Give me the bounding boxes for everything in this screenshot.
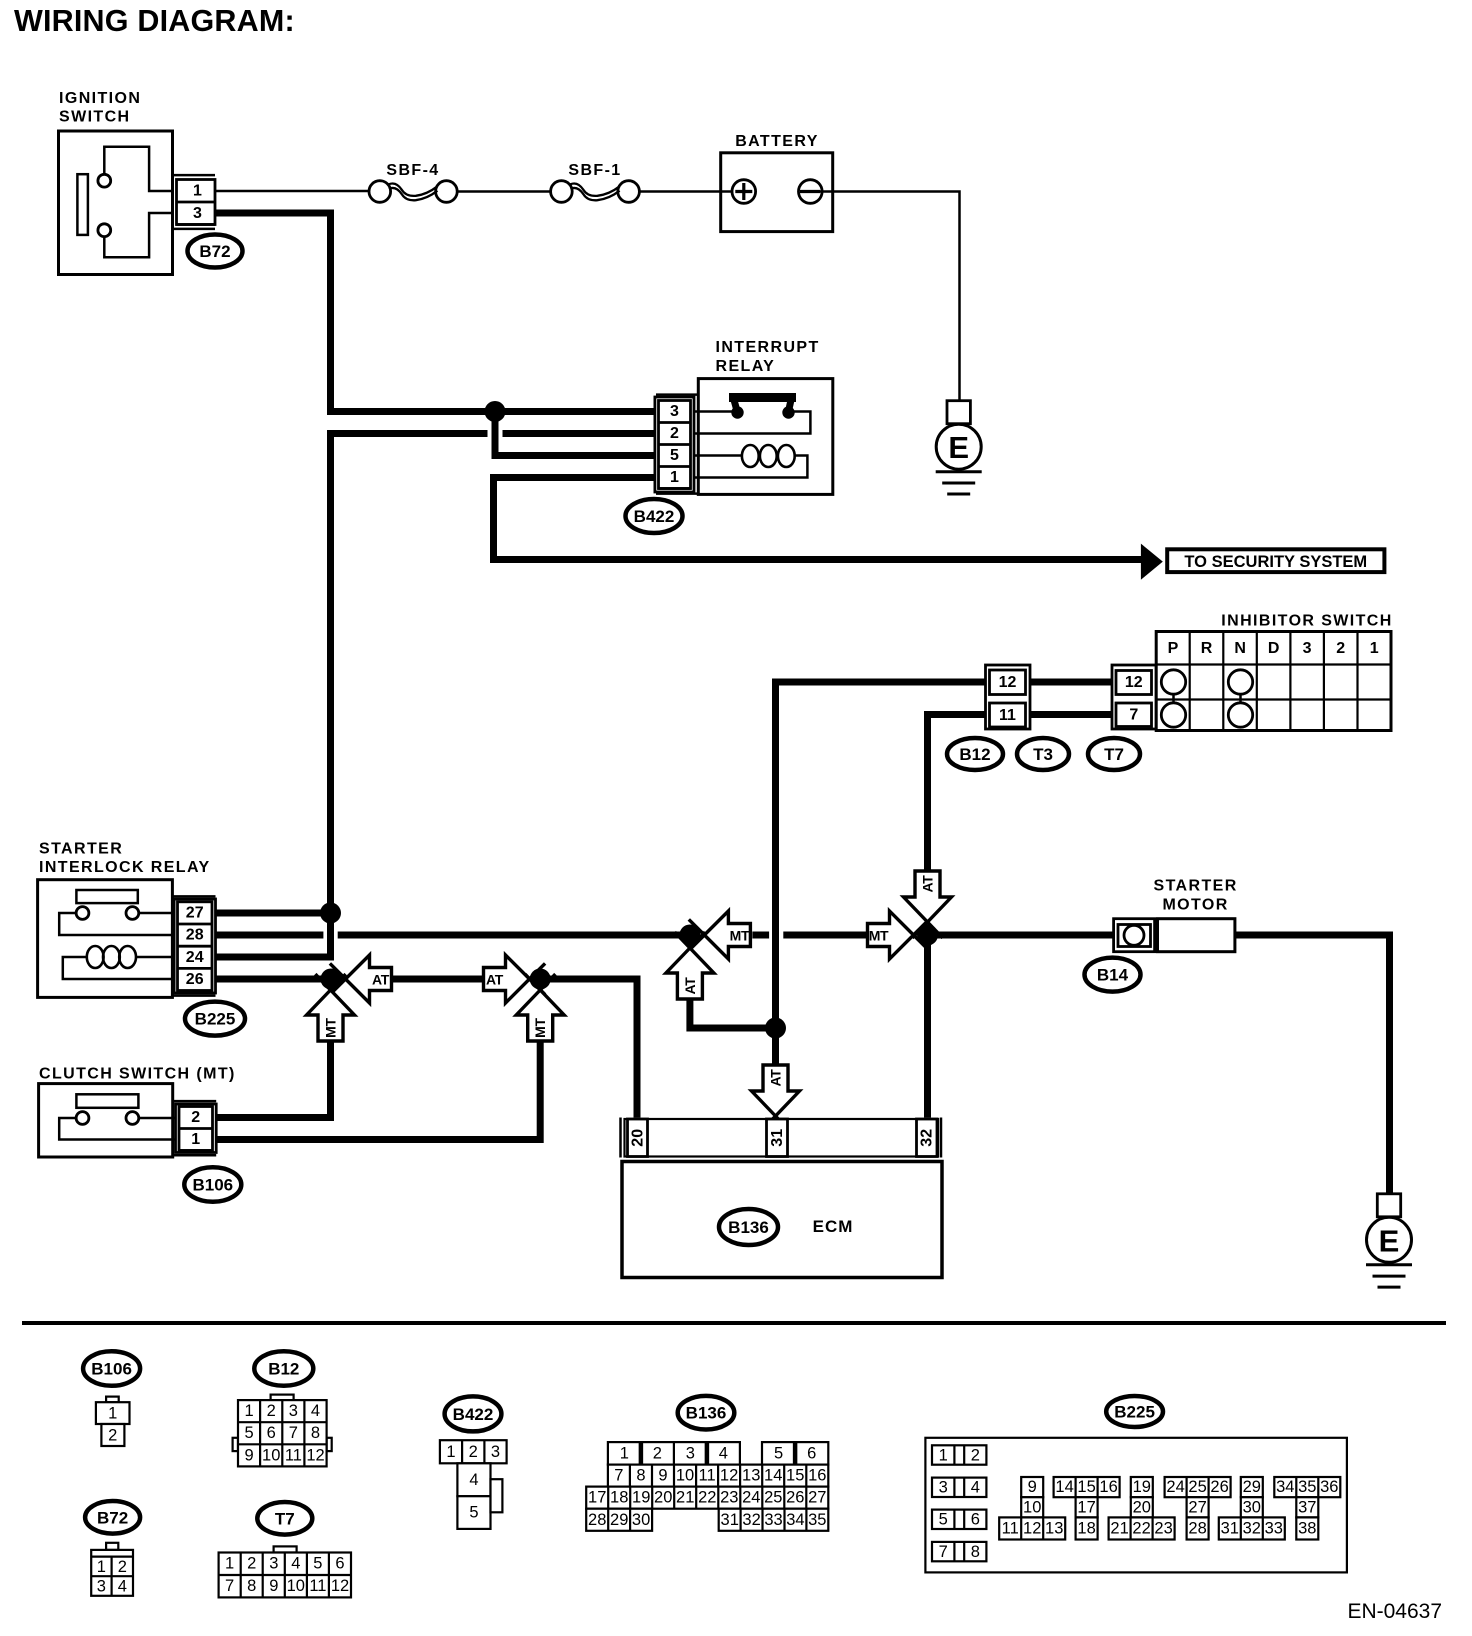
svg-text:14: 14 (1055, 1478, 1073, 1496)
svg-text:21: 21 (676, 1489, 694, 1507)
svg-text:32: 32 (1243, 1520, 1261, 1538)
ECM pin 20 (628, 1119, 648, 1157)
svg-text:34: 34 (786, 1511, 804, 1529)
svg-text:9: 9 (658, 1467, 667, 1485)
wire ECM31 net down to AT arrow (772, 1028, 779, 1065)
svg-text:EN-04637: EN-04637 (1347, 1600, 1442, 1623)
svg-text:AT: AT (768, 1069, 784, 1087)
pinout B225 left pin pairs (932, 1445, 986, 1561)
svg-text:INTERRUPT: INTERRUPT (716, 339, 820, 356)
pinout B422 pins 4,5 (457, 1463, 502, 1529)
pinout label B72 (85, 1501, 140, 1534)
separator line (22, 1321, 1446, 1325)
svg-text:N: N (1234, 640, 1246, 657)
svg-text:7: 7 (614, 1467, 623, 1485)
wire clutch pin2 up to MT arrow (216, 1041, 330, 1118)
svg-text:29: 29 (610, 1511, 628, 1529)
connector B422 bracket (656, 393, 698, 396)
svg-text:1: 1 (97, 1558, 106, 1576)
svg-text:CLUTCH SWITCH (MT): CLUTCH SWITCH (MT) (39, 1066, 236, 1083)
svg-text:11: 11 (285, 1446, 302, 1464)
svg-text:B422: B422 (453, 1405, 494, 1424)
svg-text:INTERLOCK RELAY: INTERLOCK RELAY (39, 859, 211, 876)
svg-text:8: 8 (636, 1467, 645, 1485)
interrupt relay coil (694, 445, 807, 478)
svg-text:STARTER: STARTER (39, 841, 123, 858)
svg-text:13: 13 (742, 1467, 760, 1485)
junction node B2 (917, 925, 938, 946)
svg-text:24: 24 (186, 949, 204, 966)
ground E (starter motor) (1366, 1194, 1412, 1287)
svg-text:20: 20 (1133, 1498, 1151, 1516)
svg-text:4: 4 (469, 1471, 478, 1489)
svg-text:9: 9 (1028, 1478, 1037, 1496)
connector label B106 (184, 1167, 241, 1202)
svg-text:WIRING DIAGRAM:: WIRING DIAGRAM: (14, 4, 295, 38)
battery box (721, 153, 833, 232)
svg-text:4: 4 (971, 1479, 980, 1497)
svg-text:11: 11 (1002, 1520, 1019, 1538)
pinout B422 top row (440, 1440, 507, 1463)
wire clutch pin1 up to MT arrow (216, 1041, 540, 1140)
svg-text:33: 33 (1265, 1520, 1283, 1538)
svg-text:36: 36 (1320, 1478, 1338, 1496)
svg-text:26: 26 (186, 971, 204, 988)
svg-text:B14: B14 (1097, 966, 1129, 985)
svg-text:3: 3 (193, 205, 202, 222)
svg-text:30: 30 (1243, 1498, 1261, 1516)
svg-text:1: 1 (620, 1444, 629, 1462)
svg-text:5: 5 (670, 447, 679, 464)
pinout B225 group 14-18 (1054, 1477, 1120, 1540)
svg-text:T7: T7 (1104, 745, 1124, 764)
svg-text:B422: B422 (634, 507, 675, 526)
svg-text:3: 3 (491, 1443, 500, 1461)
svg-text:B106: B106 (192, 1176, 233, 1195)
pinout B72 connector (91, 1550, 133, 1596)
inhibitor switch table (1156, 632, 1391, 731)
svg-text:10: 10 (676, 1467, 694, 1485)
svg-text:E: E (1379, 1223, 1400, 1258)
wire battery to ground E (thin) (820, 192, 960, 401)
svg-text:2: 2 (267, 1402, 276, 1420)
svg-text:B72: B72 (199, 242, 230, 261)
svg-text:17: 17 (588, 1489, 606, 1507)
wire interrupt relay pin2 down to starter interlock (with crossing gap) (216, 434, 655, 958)
svg-text:1: 1 (191, 1131, 200, 1148)
starter interlock relay coil (63, 946, 174, 979)
battery - terminal (799, 180, 823, 204)
svg-text:3: 3 (939, 1479, 948, 1497)
svg-text:AT: AT (682, 977, 698, 995)
pinout B225 outer box (925, 1438, 1347, 1573)
wire between inhibitor connectors row2 (1030, 711, 1112, 718)
svg-text:30: 30 (632, 1511, 650, 1529)
alternate-path arrow MT (up, node A2) (516, 974, 564, 1041)
svg-text:3: 3 (289, 1402, 298, 1420)
svg-text:11: 11 (999, 707, 1016, 724)
svg-text:11: 11 (699, 1467, 716, 1485)
pinout B225 group 34-38 (1274, 1477, 1340, 1540)
pinout B225 group 9-13 (999, 1477, 1065, 1540)
svg-text:B225: B225 (1114, 1403, 1155, 1422)
svg-text:19: 19 (632, 1489, 650, 1507)
ECM connector strip brackets (619, 1118, 622, 1158)
svg-text:STARTER: STARTER (1154, 878, 1238, 895)
svg-text:4: 4 (719, 1444, 728, 1462)
interrupt relay box (698, 379, 833, 495)
svg-text:12: 12 (306, 1446, 324, 1464)
svg-text:23: 23 (720, 1489, 738, 1507)
inhibitor connector T7 (12,7) (1112, 665, 1156, 729)
pinout label B225 (1106, 1396, 1163, 1427)
svg-text:24: 24 (742, 1489, 760, 1507)
svg-text:6: 6 (335, 1555, 344, 1573)
svg-text:35: 35 (808, 1511, 826, 1529)
wire node B2 down to ECM pin32 (924, 943, 931, 1118)
clutch switch contact circles (76, 1112, 89, 1125)
svg-text:SBF-4: SBF-4 (386, 162, 439, 179)
svg-text:3: 3 (1303, 640, 1312, 657)
svg-text:8: 8 (247, 1577, 256, 1595)
svg-text:3: 3 (97, 1578, 106, 1596)
svg-text:17: 17 (1077, 1498, 1095, 1516)
ECM connector strip (625, 1119, 939, 1157)
svg-text:MT: MT (730, 928, 750, 944)
svg-text:2: 2 (653, 1444, 662, 1462)
wire between AT arrows run A (392, 976, 484, 983)
svg-text:SWITCH: SWITCH (59, 109, 131, 126)
svg-text:T3: T3 (1033, 745, 1053, 764)
svg-text:3: 3 (670, 403, 679, 420)
connector B225 bracket (172, 895, 215, 898)
svg-text:9: 9 (269, 1577, 278, 1595)
pinout B106 connector (96, 1397, 130, 1446)
svg-text:1: 1 (939, 1446, 948, 1464)
svg-text:SBF-1: SBF-1 (568, 162, 621, 179)
wire node A2 to ECM pin20 (540, 979, 637, 1118)
svg-text:7: 7 (289, 1424, 298, 1442)
ignition switch key bar (77, 174, 88, 235)
wire interrupt relay pin1 to security system (494, 478, 1146, 560)
pinout label T7 (257, 1502, 312, 1535)
svg-text:22: 22 (698, 1489, 716, 1507)
svg-text:1: 1 (193, 182, 202, 199)
pinout B225 group 29-33 (1219, 1477, 1285, 1540)
svg-text:26: 26 (1210, 1478, 1228, 1496)
svg-text:5: 5 (313, 1555, 322, 1573)
connector label T3 (1017, 738, 1069, 770)
clutch switch contact wiring (59, 1118, 175, 1140)
connector B72 bracket (172, 174, 215, 177)
pinout B136 row4 cells 28-30 (586, 1509, 652, 1531)
svg-text:1: 1 (446, 1443, 455, 1461)
clutch switch contact bar (76, 1094, 138, 1108)
starter interlock relay box (38, 880, 173, 998)
svg-text:MOTOR: MOTOR (1162, 897, 1228, 914)
svg-text:35: 35 (1298, 1478, 1316, 1496)
svg-text:2: 2 (1336, 640, 1345, 657)
pinout T7 grid (219, 1553, 351, 1598)
pinout label B12 (254, 1351, 313, 1386)
pinout label B136 (678, 1396, 735, 1430)
svg-text:10: 10 (262, 1446, 280, 1464)
connector label B14 (1085, 958, 1141, 992)
alternate-path arrow AT (left, node A1) (330, 955, 392, 1003)
svg-text:12: 12 (331, 1577, 349, 1595)
svg-text:1: 1 (225, 1555, 234, 1573)
pinout B136 row2 (608, 1465, 828, 1487)
junction node A1 (321, 969, 342, 990)
wire starter relay pin28 long run (gaps at crossings) (216, 932, 1114, 939)
svg-text:34: 34 (1276, 1478, 1294, 1496)
svg-text:13: 13 (1045, 1520, 1063, 1538)
svg-text:7: 7 (225, 1577, 234, 1595)
svg-text:IGNITION: IGNITION (59, 90, 141, 107)
alternate-path arrow MT (right, node B2) (868, 911, 930, 959)
alternate-path arrow AT (right, node A2) (484, 955, 546, 1003)
alternate-path arrow AT (down, node B2) (904, 871, 952, 938)
svg-text:1: 1 (245, 1402, 254, 1420)
svg-text:24: 24 (1166, 1478, 1184, 1496)
svg-text:BATTERY: BATTERY (735, 133, 819, 150)
pinout B72 top tab (106, 1543, 118, 1550)
svg-text:3: 3 (269, 1555, 278, 1573)
wire starter relay pin26 to node A1 (216, 976, 332, 983)
ignition switch internal wiring (104, 147, 172, 258)
svg-text:5: 5 (245, 1424, 254, 1442)
connector B422 pins 3,2,5,1 (655, 397, 694, 492)
pinout label B106 (83, 1351, 140, 1386)
junction node on ECM31 net (765, 1018, 786, 1039)
interrupt relay contact (694, 393, 810, 434)
svg-text:RELAY: RELAY (716, 358, 776, 375)
pinout B136 row1 cells 1-4 (608, 1442, 740, 1465)
svg-text:12: 12 (999, 674, 1017, 691)
ignition switch box (59, 131, 173, 275)
svg-text:21: 21 (1110, 1520, 1128, 1538)
svg-text:20: 20 (654, 1489, 672, 1507)
connector label B72 (188, 235, 243, 268)
connector B72 pins 1,3 (177, 180, 216, 225)
svg-text:12: 12 (1023, 1520, 1041, 1538)
svg-text:12: 12 (720, 1467, 738, 1485)
svg-text:23: 23 (1154, 1520, 1172, 1538)
svg-text:5: 5 (939, 1511, 948, 1529)
svg-text:MT: MT (532, 1017, 548, 1037)
wire between inhibitor connectors row1 (1030, 679, 1112, 686)
pinout B12 top tab (271, 1395, 294, 1401)
svg-text:28: 28 (1188, 1520, 1206, 1538)
svg-text:12: 12 (1125, 674, 1143, 691)
pinout label B422 (445, 1396, 502, 1431)
svg-text:19: 19 (1133, 1478, 1151, 1496)
connector label T7 (1088, 738, 1140, 770)
inhibitor switch contact circles P (1161, 670, 1185, 694)
pinout B12 grid (238, 1400, 327, 1466)
svg-text:31: 31 (769, 1129, 786, 1147)
svg-text:B72: B72 (97, 1508, 128, 1527)
svg-text:R: R (1201, 640, 1213, 657)
alternate-path arrow AT (down, ECM pin31) (752, 1065, 800, 1132)
inhibitor switch contact circles N (1228, 670, 1252, 694)
svg-text:TO SECURITY SYSTEM: TO SECURITY SYSTEM (1184, 553, 1367, 571)
svg-text:6: 6 (267, 1424, 276, 1442)
connector B225 pins 27,28,24,26 (174, 899, 215, 993)
svg-text:33: 33 (764, 1511, 782, 1529)
svg-text:B12: B12 (268, 1360, 299, 1379)
svg-text:1: 1 (1370, 640, 1379, 657)
svg-text:INHIBITOR SWITCH: INHIBITOR SWITCH (1221, 613, 1392, 630)
wire starter relay pin27 to vertical (216, 910, 331, 917)
svg-text:27: 27 (808, 1489, 826, 1507)
svg-text:2: 2 (247, 1555, 256, 1573)
svg-text:10: 10 (1023, 1498, 1041, 1516)
svg-text:32: 32 (742, 1511, 760, 1529)
arrow to security system (1141, 544, 1163, 580)
pinout B136 row3 (586, 1487, 828, 1509)
connector label B12 (947, 738, 1003, 770)
svg-text:2: 2 (191, 1109, 200, 1126)
svg-text:1: 1 (108, 1405, 117, 1423)
svg-text:4: 4 (291, 1555, 300, 1573)
svg-text:MT: MT (869, 928, 889, 944)
alternate-path arrow AT (up, node B1) (666, 932, 714, 999)
svg-text:8: 8 (311, 1424, 320, 1442)
svg-text:AT: AT (372, 972, 390, 988)
svg-text:B225: B225 (195, 1010, 236, 1029)
svg-text:27: 27 (1188, 1498, 1206, 1516)
pinout B136 row4 cells 31-35 (719, 1509, 829, 1531)
svg-text:2: 2 (469, 1443, 478, 1461)
wire ignition pin3 down to interrupt relay pin3 (215, 213, 655, 412)
svg-text:11: 11 (309, 1577, 326, 1595)
svg-text:MT: MT (323, 1017, 339, 1037)
connector B14 (1114, 919, 1155, 952)
svg-text:1: 1 (670, 469, 679, 486)
pinout B225 group 24-28 (1165, 1477, 1231, 1540)
starter interlock relay contact bar (76, 890, 137, 903)
svg-text:2: 2 (108, 1426, 117, 1444)
svg-text:AT: AT (920, 875, 936, 893)
junction node (relay pin3 branch) (485, 401, 506, 422)
wire branch to interrupt relay pin5 (495, 412, 655, 456)
svg-text:B106: B106 (91, 1360, 132, 1379)
svg-text:25: 25 (764, 1489, 782, 1507)
svg-text:4: 4 (118, 1578, 127, 1596)
svg-text:D: D (1268, 640, 1280, 657)
ignition switch contact circles (98, 174, 111, 187)
TO SECURITY SYSTEM box (1167, 549, 1384, 572)
svg-text:14: 14 (764, 1467, 782, 1485)
svg-text:P: P (1168, 640, 1179, 657)
clutch switch box (39, 1084, 173, 1157)
connector B106 bracket (173, 1100, 217, 1103)
svg-text:31: 31 (1221, 1520, 1239, 1538)
junction node A2 (530, 969, 551, 990)
svg-text:22: 22 (1132, 1520, 1150, 1538)
svg-text:5: 5 (774, 1444, 783, 1462)
ECM pin 31 (767, 1119, 788, 1157)
starter interlock relay contact wiring (59, 913, 174, 935)
alternate-path arrow MT (left, node B1) (689, 911, 751, 959)
svg-text:B136: B136 (728, 1218, 769, 1237)
wire ignition pin1 to battery (thin) (215, 190, 732, 193)
wire ECM31 net to inhibitor pin 12 (776, 682, 986, 1028)
ground E (battery) (936, 401, 982, 494)
svg-text:ECM: ECM (813, 1217, 854, 1236)
svg-text:29: 29 (1243, 1478, 1261, 1496)
svg-text:16: 16 (808, 1467, 826, 1485)
wire node B1 AT branch down to node ECM31 net (690, 997, 776, 1028)
svg-text:27: 27 (186, 904, 204, 921)
svg-text:9: 9 (245, 1446, 254, 1464)
svg-text:31: 31 (721, 1511, 739, 1529)
svg-text:15: 15 (1077, 1478, 1095, 1496)
ECM box (622, 1162, 942, 1278)
svg-text:10: 10 (287, 1577, 305, 1595)
svg-text:20: 20 (629, 1129, 646, 1147)
ECM pin 32 (917, 1119, 938, 1157)
svg-text:16: 16 (1099, 1478, 1117, 1496)
svg-text:28: 28 (588, 1511, 606, 1529)
svg-text:7: 7 (1129, 706, 1138, 723)
svg-text:E: E (948, 430, 969, 465)
connector label B136 (ECM) (719, 1209, 778, 1245)
svg-text:6: 6 (971, 1511, 980, 1529)
svg-text:32: 32 (919, 1129, 936, 1147)
svg-text:38: 38 (1298, 1520, 1316, 1538)
connector B106 pins 2,1 (176, 1104, 217, 1153)
svg-text:6: 6 (807, 1444, 816, 1462)
svg-text:5: 5 (469, 1504, 478, 1522)
starter motor body (1158, 919, 1235, 952)
inhibitor switch contact links (1172, 682, 1175, 715)
svg-text:18: 18 (1077, 1520, 1095, 1538)
svg-text:4: 4 (311, 1402, 320, 1420)
svg-text:2: 2 (670, 425, 679, 442)
wire AT net to inhibitor pin 11 (928, 715, 986, 872)
svg-text:3: 3 (686, 1444, 695, 1462)
svg-text:37: 37 (1298, 1498, 1316, 1516)
svg-text:AT: AT (486, 972, 504, 988)
svg-text:7: 7 (939, 1543, 948, 1561)
svg-text:8: 8 (971, 1543, 980, 1561)
wire starter motor to ground (1235, 935, 1390, 1194)
pinout B225 group 19-23 (1109, 1477, 1175, 1540)
svg-text:T7: T7 (275, 1509, 295, 1528)
inhibitor connector B12/T3 (12,11) (986, 665, 1031, 729)
svg-text:2: 2 (971, 1446, 980, 1464)
pinout B12 side tabs (233, 1438, 238, 1451)
svg-text:B12: B12 (959, 745, 990, 764)
connector label B225 (185, 1002, 245, 1036)
pinout T7 top tab (274, 1546, 297, 1552)
svg-text:B136: B136 (686, 1404, 727, 1423)
svg-text:26: 26 (786, 1489, 804, 1507)
alternate-path arrow MT (up, node A1) (307, 974, 355, 1041)
starter interlock relay contact circles (76, 907, 89, 920)
svg-text:2: 2 (118, 1558, 127, 1576)
svg-text:15: 15 (786, 1467, 804, 1485)
junction node pin27/interrupt-relay net (320, 903, 341, 924)
junction node B1 (679, 925, 700, 946)
svg-text:28: 28 (186, 927, 204, 944)
svg-text:18: 18 (610, 1489, 628, 1507)
svg-text:25: 25 (1188, 1478, 1206, 1496)
battery + terminal (732, 180, 756, 204)
pinout B136 row1 cells 5-6 (762, 1442, 828, 1465)
